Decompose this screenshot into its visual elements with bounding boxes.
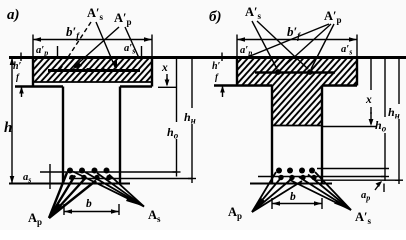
h0 dimension line (right) xyxy=(384,58,386,118)
x dimension (right) xyxy=(370,58,372,91)
svg-text:h′: h′ xyxy=(212,61,221,72)
flange hatch (left, compression zone) xyxy=(33,58,152,83)
b'f dimension line (right) xyxy=(237,39,357,41)
rebar dots top row (left) xyxy=(67,168,73,174)
beam bottom line (left) xyxy=(9,183,130,185)
flange right edge xyxy=(151,57,153,87)
leader arrowhead 1 xyxy=(72,63,82,70)
Ap centroid line (left) xyxy=(69,178,192,180)
lower ref line (right) xyxy=(315,179,399,181)
h0 dimension line (left) xyxy=(176,58,178,123)
hn dimension line (left) xyxy=(191,58,193,109)
as tick xyxy=(49,164,51,189)
b'f dimension line (left) xyxy=(33,39,152,41)
compression steel line (left) xyxy=(48,69,140,72)
leaders A'p (right) xyxy=(244,24,329,59)
Ap centroid line (right) xyxy=(258,176,385,178)
fan leaders to A's (right bottom) xyxy=(315,172,351,210)
svg-text:h′: h′ xyxy=(13,61,22,72)
leader A's solid xyxy=(96,22,115,67)
svg-text:x: x xyxy=(365,94,372,106)
svg-text:а): а) xyxy=(7,7,20,23)
fan leaders to Ap (right) xyxy=(252,172,276,212)
rebar dots bottom row (right) xyxy=(278,175,283,180)
beam bottom line (right) xyxy=(250,183,332,185)
flange left edge (right) xyxy=(236,57,238,86)
h'f dimension (left) xyxy=(20,53,22,62)
flange hatch (right) xyxy=(237,58,357,86)
neutral axis line (left) xyxy=(33,81,152,83)
leader A's dashed xyxy=(60,22,91,70)
top surface line xyxy=(9,56,406,59)
b dimension (right) xyxy=(272,203,322,205)
h'f dimension (right) xyxy=(221,53,223,62)
neutral axis line (right) xyxy=(272,125,322,127)
hn dimension line (right) xyxy=(398,58,400,105)
svg-text:b: b xyxy=(290,191,296,203)
web left edge (right) xyxy=(271,86,273,184)
svg-text:б): б) xyxy=(209,9,221,25)
fan leaders to As (left) xyxy=(73,172,144,207)
svg-text:x: x xyxy=(161,62,168,74)
compression steel dots (left) xyxy=(86,68,90,72)
leader A'p left xyxy=(74,27,119,67)
web right edge (right) xyxy=(321,86,323,184)
web left edge xyxy=(62,87,64,184)
web right edge xyxy=(119,87,121,184)
fan leaders to Ap (left) xyxy=(49,173,67,219)
flange bottom left overhang xyxy=(15,85,63,87)
flange right edge (right) xyxy=(356,57,358,86)
svg-text:h: h xyxy=(4,120,12,136)
flange bottom right overhang xyxy=(120,85,152,87)
web hatch compressed zone (right) xyxy=(272,86,322,126)
tick after a's xyxy=(141,46,143,57)
flange left edge xyxy=(32,57,34,87)
h dimension line (left) xyxy=(11,58,13,184)
tick after a'p xyxy=(57,46,59,57)
rebar dots top row (right) xyxy=(276,168,282,174)
compression steel dots (right) xyxy=(275,69,281,75)
rebar dots bottom row (left) xyxy=(69,175,74,180)
flange bottom right overhang (right) xyxy=(322,84,357,86)
leaders A's (right) xyxy=(252,21,277,69)
b dimension (left) xyxy=(64,211,119,213)
compression steel line (right) xyxy=(255,71,335,74)
leader A'p right xyxy=(125,27,139,58)
svg-text:b: b xyxy=(86,198,92,210)
As centroid line (left) xyxy=(40,171,177,173)
As row line (right) xyxy=(317,168,389,170)
flange bottom left overhang (right) xyxy=(214,84,272,86)
leader arrowhead 2 xyxy=(112,61,117,70)
